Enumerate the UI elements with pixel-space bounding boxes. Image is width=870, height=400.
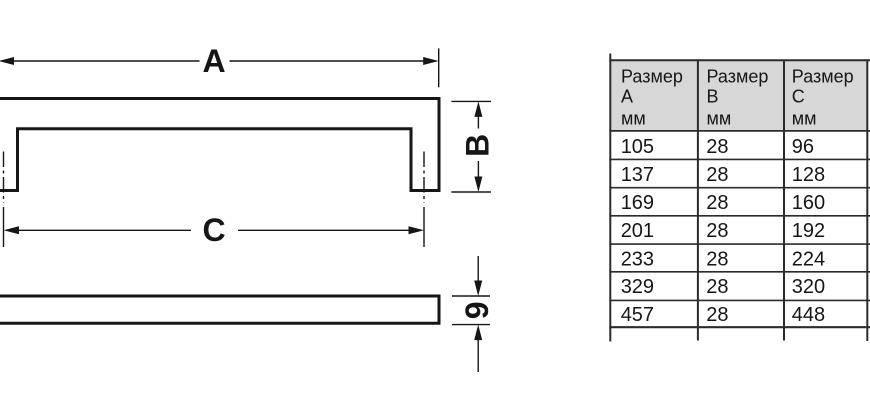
svg-text:28: 28 [706,192,728,214]
table top border [609,59,870,61]
dimension C left extension line [3,207,5,247]
dimension 9 bottom extension line [452,324,490,326]
table row border 3 [609,215,870,217]
table vertical border col2/col3 [783,59,785,340]
svg-text:233: 233 [621,248,654,270]
svg-text:28: 28 [706,248,728,270]
svg-text:мм: мм [792,108,817,128]
svg-text:105: 105 [621,136,654,158]
svg-text:320: 320 [792,276,825,298]
right hole center line (dash-dot) [423,152,425,204]
dimension C right arrowhead [409,226,425,234]
svg-text:28: 28 [706,136,728,158]
table row border 5 [609,271,870,273]
dimension 9 lower arrow (pointing up) [477,339,479,372]
table vertical border right [866,59,868,341]
svg-text:28: 28 [706,304,728,326]
svg-text:9: 9 [459,302,495,320]
table header background [610,60,867,131]
left hole center line (dash-dot) [3,152,5,204]
handle front view profile [0,99,439,191]
svg-text:448: 448 [792,304,825,326]
svg-text:329: 329 [621,276,654,298]
dimension B top arrowhead [474,101,482,117]
dimension B bottom extension line [451,191,491,193]
dimension A right arrowhead [423,57,439,65]
svg-text:224: 224 [792,248,825,270]
svg-text:457: 457 [621,304,654,326]
dimension A left arrowhead [0,57,14,65]
dimension A right extension line [438,48,440,87]
dimension B line [477,115,479,178]
svg-text:C: C [202,212,225,248]
svg-text:128: 128 [792,164,825,186]
handle side view bar [0,296,439,323]
svg-text:201: 201 [621,220,654,242]
dimension 9 top extension line [452,295,490,297]
dimension C right extension line [423,207,425,247]
svg-text:96: 96 [792,136,814,158]
svg-text:A: A [202,43,225,79]
svg-text:мм: мм [621,108,646,128]
dimension B bottom arrowhead [474,177,482,193]
svg-text:B: B [460,134,496,157]
dimension C line [17,229,410,231]
svg-text:мм: мм [707,108,732,128]
svg-text:192: 192 [792,220,825,242]
svg-text:Размер: Размер [621,67,683,87]
svg-text:137: 137 [621,164,654,186]
table header bottom border [609,130,870,132]
svg-text:160: 160 [792,192,825,214]
svg-text:28: 28 [706,164,728,186]
svg-text:А: А [621,86,633,106]
dimension C left arrowhead [4,226,20,234]
svg-text:С: С [792,86,805,106]
svg-text:169: 169 [621,192,654,214]
table row border 2 [609,187,870,189]
svg-text:Размер: Размер [792,67,854,87]
dimension A line [10,48,439,87]
dimension 9 upper arrow (pointing down) [477,256,479,282]
svg-text:28: 28 [706,220,728,242]
table row border 6 [609,299,870,301]
table vertical border col1/col2 [697,59,699,340]
table vertical border left [609,54,611,342]
table bottom border [609,326,870,328]
svg-text:В: В [707,86,719,106]
table row border 4 [609,243,870,245]
svg-text:28: 28 [706,276,728,298]
table row border 1 [609,158,870,160]
dimension B top extension line [451,100,491,102]
svg-text:Размер: Размер [707,67,769,87]
